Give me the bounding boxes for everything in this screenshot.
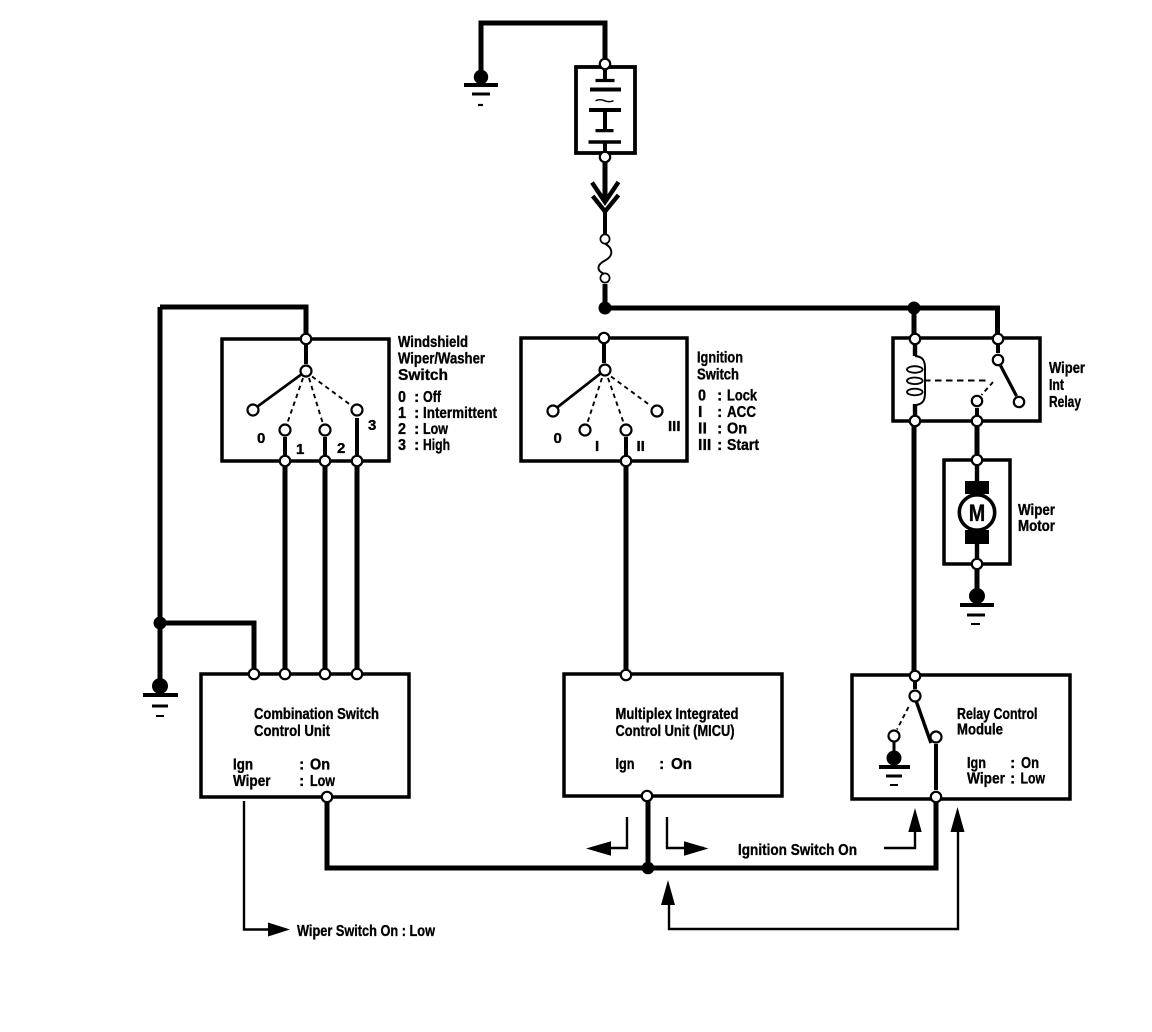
svg-text:III: III xyxy=(668,418,681,435)
svg-text:Combination Switch: Combination Switch xyxy=(254,706,379,723)
svg-text::: : xyxy=(717,388,722,405)
svg-text:M: M xyxy=(969,500,986,527)
svg-text:Start: Start xyxy=(727,437,760,454)
svg-text::: : xyxy=(1010,771,1015,788)
svg-text:Wiper: Wiper xyxy=(233,773,271,790)
svg-text:1: 1 xyxy=(398,405,406,422)
svg-text:Wiper: Wiper xyxy=(1018,502,1055,519)
svg-text:Low: Low xyxy=(1021,771,1046,788)
svg-text::: : xyxy=(299,757,304,774)
svg-text:I: I xyxy=(698,404,702,421)
svg-text:Wiper: Wiper xyxy=(967,771,1005,788)
svg-text:Off: Off xyxy=(423,389,442,406)
svg-text:0: 0 xyxy=(554,430,562,447)
svg-text:Ign: Ign xyxy=(233,757,253,774)
svg-text:Wiper: Wiper xyxy=(1049,360,1085,377)
svg-text:Ignition Switch On: Ignition Switch On xyxy=(738,842,857,859)
svg-text:Windshield: Windshield xyxy=(398,334,468,351)
svg-text:On: On xyxy=(1021,755,1039,772)
svg-text::: : xyxy=(717,437,722,454)
svg-text:On: On xyxy=(310,757,330,774)
svg-text:Low: Low xyxy=(310,773,335,790)
svg-text:3: 3 xyxy=(398,437,406,454)
svg-text::: : xyxy=(717,404,722,421)
svg-text::: : xyxy=(659,756,664,773)
svg-text:On: On xyxy=(671,756,692,773)
svg-text:Intermittent: Intermittent xyxy=(423,405,498,422)
svg-text::: : xyxy=(414,437,419,454)
svg-text:Multiplex Integrated: Multiplex Integrated xyxy=(616,706,739,723)
svg-text:III: III xyxy=(698,437,711,454)
svg-text:Ign: Ign xyxy=(967,755,986,772)
svg-text:0: 0 xyxy=(698,388,706,405)
svg-text:Relay Control: Relay Control xyxy=(957,706,1038,723)
svg-text:2: 2 xyxy=(398,421,406,438)
svg-text::: : xyxy=(414,405,419,422)
svg-text:ACC: ACC xyxy=(727,404,756,421)
svg-text:Wiper/Washer: Wiper/Washer xyxy=(398,351,485,368)
svg-text:Control Unit (MICU): Control Unit (MICU) xyxy=(616,723,735,740)
svg-text:II: II xyxy=(698,421,707,438)
svg-text:Int: Int xyxy=(1049,377,1065,394)
svg-text:Module: Module xyxy=(957,722,1003,739)
svg-text:Wiper Switch On : Low: Wiper Switch On : Low xyxy=(297,923,435,940)
svg-text:Relay: Relay xyxy=(1049,394,1081,411)
svg-text:2: 2 xyxy=(337,440,345,457)
svg-text:On: On xyxy=(727,421,747,438)
svg-text:Control Unit: Control Unit xyxy=(254,723,331,740)
svg-text:II: II xyxy=(637,438,645,455)
svg-text:1: 1 xyxy=(296,441,304,458)
svg-text:Switch: Switch xyxy=(398,367,448,384)
svg-text::: : xyxy=(414,389,419,406)
svg-text:I: I xyxy=(595,438,599,455)
svg-text:Switch: Switch xyxy=(697,367,739,384)
svg-text:Low: Low xyxy=(423,421,448,438)
svg-text:0: 0 xyxy=(257,430,265,447)
svg-text:Ignition: Ignition xyxy=(697,350,743,367)
svg-text:Motor: Motor xyxy=(1018,518,1055,535)
svg-text::: : xyxy=(717,421,722,438)
svg-text:High: High xyxy=(423,437,450,454)
svg-text:Ign: Ign xyxy=(616,756,635,773)
svg-text:3: 3 xyxy=(368,417,376,434)
svg-text::: : xyxy=(1010,755,1015,772)
svg-text:Lock: Lock xyxy=(727,388,757,405)
svg-text:0: 0 xyxy=(398,389,406,406)
svg-text::: : xyxy=(299,773,304,790)
svg-text::: : xyxy=(414,421,419,438)
